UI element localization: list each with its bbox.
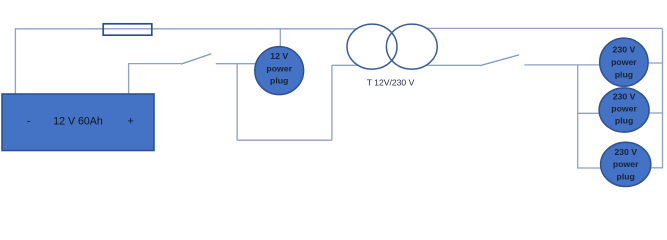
svg-text:230 V: 230 V xyxy=(614,147,637,157)
svg-text:+: + xyxy=(128,115,134,127)
transformer T1 secondary winding circle xyxy=(386,24,437,69)
fuse F1 on top bus xyxy=(103,24,152,35)
wire bottom loop up to transformer primary bottom lead xyxy=(331,65,333,140)
svg-text:plug: plug xyxy=(615,116,633,126)
wire stub right bus to 230V plug 1 right terminal xyxy=(648,62,663,64)
wire stub left bus to 230V plug 2 left terminal xyxy=(578,112,600,114)
svg-text:plug: plug xyxy=(270,76,288,86)
12V power plug P1 xyxy=(255,47,304,95)
battery BT1 12V 60Ah xyxy=(2,94,154,151)
wire transformer secondary bottom lead to switch S2 left pole xyxy=(426,64,480,66)
svg-text:-: - xyxy=(27,115,31,127)
wire bottom loop horizontal under 12V plug xyxy=(237,139,332,141)
230V power plug P4 label xyxy=(613,147,639,181)
svg-text:power: power xyxy=(611,57,637,67)
svg-text:power: power xyxy=(613,159,639,169)
12V power plug P1 label xyxy=(266,51,292,86)
wire right bus vertical down to 230V plug 3 right terminal xyxy=(651,28,663,167)
wire junction drop from 12V feed down to bottom loop xyxy=(236,64,238,141)
wire top bus down to 12V power plug top terminal xyxy=(279,29,281,47)
wire top bus from transformer secondary to right bus corner xyxy=(427,27,662,29)
switch S2 blade (open, 230V side) xyxy=(480,55,519,66)
wire battery positive terminal up to switch S1 left pole xyxy=(129,64,181,94)
wire switch S1 right pole to 12V power plug left terminal xyxy=(216,63,257,65)
230V power plug P3 xyxy=(599,88,649,132)
svg-text:T 12V/230 V: T 12V/230 V xyxy=(367,77,415,87)
wire battery negative terminal up and along top bus to transformer primary xyxy=(15,29,357,94)
svg-text:230 V: 230 V xyxy=(613,91,636,101)
wire switch S2 right pole to 230V plug 1 left terminal xyxy=(524,64,600,66)
230V power plug P2 label xyxy=(611,45,637,80)
230V power plug P3 label xyxy=(611,91,637,125)
transformer T1 primary winding circle xyxy=(347,24,397,69)
wire stub right bus to 230V plug 2 right terminal xyxy=(649,112,663,114)
switch S1 blade (open, 12V side) xyxy=(181,54,212,64)
svg-text:12 V: 12 V xyxy=(270,51,288,61)
svg-text:230 V: 230 V xyxy=(613,45,636,55)
230V power plug P4 xyxy=(601,142,651,186)
wire left bus vertical down to 230V plug 3 left terminal xyxy=(578,65,602,168)
230V power plug P2 xyxy=(600,38,648,86)
svg-text:power: power xyxy=(611,104,637,114)
svg-text:plug: plug xyxy=(615,70,633,80)
svg-text:plug: plug xyxy=(617,171,635,181)
svg-text:power: power xyxy=(266,64,292,74)
wire transformer primary bottom lead xyxy=(332,64,358,66)
svg-text:12 V 60Ah: 12 V 60Ah xyxy=(53,115,103,127)
